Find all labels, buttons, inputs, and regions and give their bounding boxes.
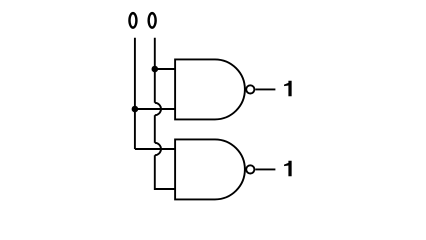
input label 0 (left) (128, 12, 137, 29)
wire branch from node B to upper NAND top input (155, 68, 176, 70)
input label 0 (right) (147, 12, 156, 29)
output label 1 (bottom) (284, 161, 292, 177)
NAND gate U2 body (175, 139, 245, 199)
NAND gate U2 inversion bubble (246, 165, 254, 173)
wire U2 output (255, 168, 275, 170)
node A junction dot (132, 106, 139, 113)
wire right input vertical (middle segment) (154, 115, 156, 143)
node B junction dot (152, 66, 159, 73)
wire left input vertical (134, 38, 136, 149)
wire U1 output (255, 88, 275, 90)
output label 1 (top) (284, 81, 292, 97)
wire branch from node A to upper NAND bottom input (135, 108, 176, 110)
wire right input vertical (bottom segment) to lower NAND bottom input (155, 155, 176, 189)
NAND gate U1 body (175, 59, 245, 119)
NAND gate U1 inversion bubble (246, 85, 254, 93)
wire right input vertical (top segment) (154, 38, 156, 103)
wire hop over node-A branch (155, 103, 161, 115)
wire left input to lower NAND top input (135, 148, 176, 150)
wire hop over left-input branch (155, 143, 161, 155)
